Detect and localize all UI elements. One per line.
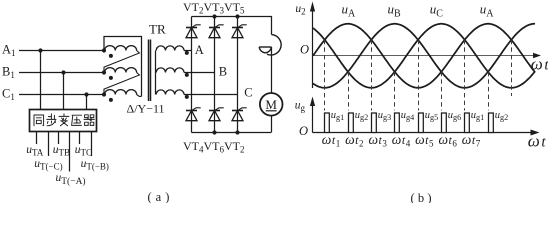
- junction dot on C1: [84, 92, 88, 96]
- thyristor VT2 (bottom leg3): [232, 110, 243, 112]
- plot u2: y axis: [312, 5, 314, 88]
- glyph char 4 of 同步变压器: [72, 115, 82, 125]
- secondary winding coil S3 (phase c): [156, 90, 184, 95]
- glyph char 3 of 同步变压器: [59, 114, 69, 126]
- svg-text:B: B: [219, 65, 227, 79]
- primary winding coil P2 (phase B): [105, 68, 137, 73]
- polarity dot P1: [109, 54, 113, 58]
- svg-text:(b): (b): [411, 191, 435, 203]
- secondary winding coil S2 (phase b): [156, 68, 184, 73]
- svg-text:M: M: [265, 97, 277, 112]
- svg-text:VT4VT6VT2: VT4VT6VT2: [183, 139, 245, 155]
- dashed firing line t6: [441, 72, 443, 111]
- svg-text:ωt: ωt: [528, 132, 547, 151]
- wire u_T(-B) stub lower part: [91, 144, 93, 156]
- primary winding coil P3 (phase C): [105, 90, 137, 95]
- delta link P3 end to right riser: [137, 95, 142, 97]
- wire u_TC stub: [79, 131, 81, 144]
- thyristor VT4 (bottom leg1): [186, 110, 197, 112]
- svg-text:Δ/Y−11: Δ/Y−11: [127, 102, 165, 116]
- wire phase B to bridge leg 2: [184, 72, 215, 74]
- gate pulse g3 at t3: [372, 113, 377, 133]
- wire drop C1 to sync transformer: [86, 95, 88, 110]
- delta winding top closing wire: [104, 37, 142, 97]
- wire bottom DC bus: [192, 132, 272, 134]
- junction dot bottom bus leg3: [235, 130, 239, 134]
- dashed firing line t9: [511, 40, 513, 96]
- dashed firing line t8: [488, 72, 490, 111]
- glyph char 1 of 同步变压器: [34, 115, 44, 126]
- wire u_TB stub: [58, 131, 60, 144]
- svg-text:A: A: [195, 43, 204, 57]
- polarity dot S2: [185, 73, 189, 77]
- wire bridge leg 3: [237, 17, 239, 133]
- junction dot bottom bus leg2: [212, 130, 216, 134]
- polarity dot P2: [109, 76, 113, 80]
- dashed firing line t2: [348, 72, 350, 111]
- thyristor VT5 (top leg3): [232, 27, 243, 29]
- gate pulse g6 at t6: [442, 113, 447, 133]
- dashed firing line t7: [464, 40, 466, 111]
- secondary star neutral riser: [155, 51, 157, 95]
- wire phase A to bridge leg 1: [184, 50, 192, 52]
- smoothing reactor L: [267, 35, 281, 55]
- gate pulse g4 at t4: [395, 113, 400, 133]
- thyristor VT6 (bottom leg2): [209, 110, 220, 112]
- glyph char 5 of 同步变压器: [84, 115, 94, 126]
- wire bus A1: [19, 50, 104, 52]
- gate pulse g2 at t8: [489, 113, 494, 133]
- gate pulse g1 at t7: [465, 113, 470, 133]
- junction dot on B1: [61, 70, 65, 74]
- gate pulse g1 at t1: [325, 113, 330, 133]
- wire reactor to motor: [271, 47, 273, 93]
- dashed firing line t4: [394, 72, 396, 111]
- gate pulse g2 at t2: [349, 113, 354, 133]
- polarity dot S1: [185, 51, 189, 55]
- svg-text:VT2VT3VT5: VT2VT3VT5: [183, 0, 245, 16]
- wire u_T(-A) stub: [69, 131, 71, 171]
- glyph char 2 of 同步变压器: [47, 114, 56, 126]
- dashed firing line t5: [418, 40, 420, 111]
- wire drop B1 to sync transformer: [63, 73, 65, 110]
- gate pulse g5 at t5: [419, 113, 424, 133]
- dashed firing line t1: [324, 40, 326, 111]
- junction dot P2 terminal: [102, 70, 106, 74]
- svg-text:O: O: [300, 43, 309, 57]
- sine curve uC: [313, 24, 535, 88]
- plot u2: x axis (omega t): [313, 55, 538, 57]
- secondary winding coil S1 (phase a): [156, 46, 184, 51]
- delta link P1 end to P2 start: [104, 51, 139, 73]
- svg-text:TR: TR: [149, 22, 166, 37]
- wire bus B1: [19, 72, 104, 74]
- transformer core: [148, 40, 150, 102]
- thyristor VT1 (top leg1): [186, 27, 197, 29]
- svg-text:C: C: [244, 86, 252, 100]
- polarity dot P3: [109, 98, 113, 102]
- polarity dot S3: [185, 95, 189, 99]
- motor M: [260, 93, 283, 116]
- svg-text:O: O: [299, 124, 308, 138]
- wire motor to bottom bus: [271, 116, 273, 133]
- wire drop A1 to sync transformer: [40, 51, 42, 110]
- delta link P2 end to P3 start: [104, 73, 139, 95]
- synchronous transformer box (同步变压器): [30, 110, 97, 132]
- wire u_T(-B) stub: [91, 131, 93, 144]
- wire top DC bus: [192, 17, 272, 35]
- sine curve uA: [313, 24, 535, 88]
- dashed firing line t3: [371, 40, 373, 111]
- junction dot on A1: [38, 48, 42, 52]
- wire bridge leg 2: [214, 17, 216, 133]
- junction dot top bus leg2: [212, 14, 216, 18]
- wire u_T(-C) stub: [48, 131, 50, 156]
- wire phase C to bridge leg 3: [184, 94, 238, 96]
- plot ug: y axis: [312, 100, 314, 133]
- wire bus C1: [19, 94, 104, 96]
- thyristor VT3 (top leg2): [209, 27, 220, 29]
- junction dot top bus leg3: [235, 14, 239, 18]
- junction dot P1 terminal: [102, 48, 106, 52]
- primary winding coil P1 (phase A): [105, 46, 137, 51]
- junction dot P3 terminal: [102, 92, 106, 96]
- wire u_TA stub: [36, 131, 38, 144]
- wire bridge leg 1: [191, 17, 193, 133]
- svg-text:(a): (a): [148, 190, 174, 203]
- plot ug: x axis (omega t): [313, 132, 536, 134]
- sine curve uB: [313, 24, 535, 88]
